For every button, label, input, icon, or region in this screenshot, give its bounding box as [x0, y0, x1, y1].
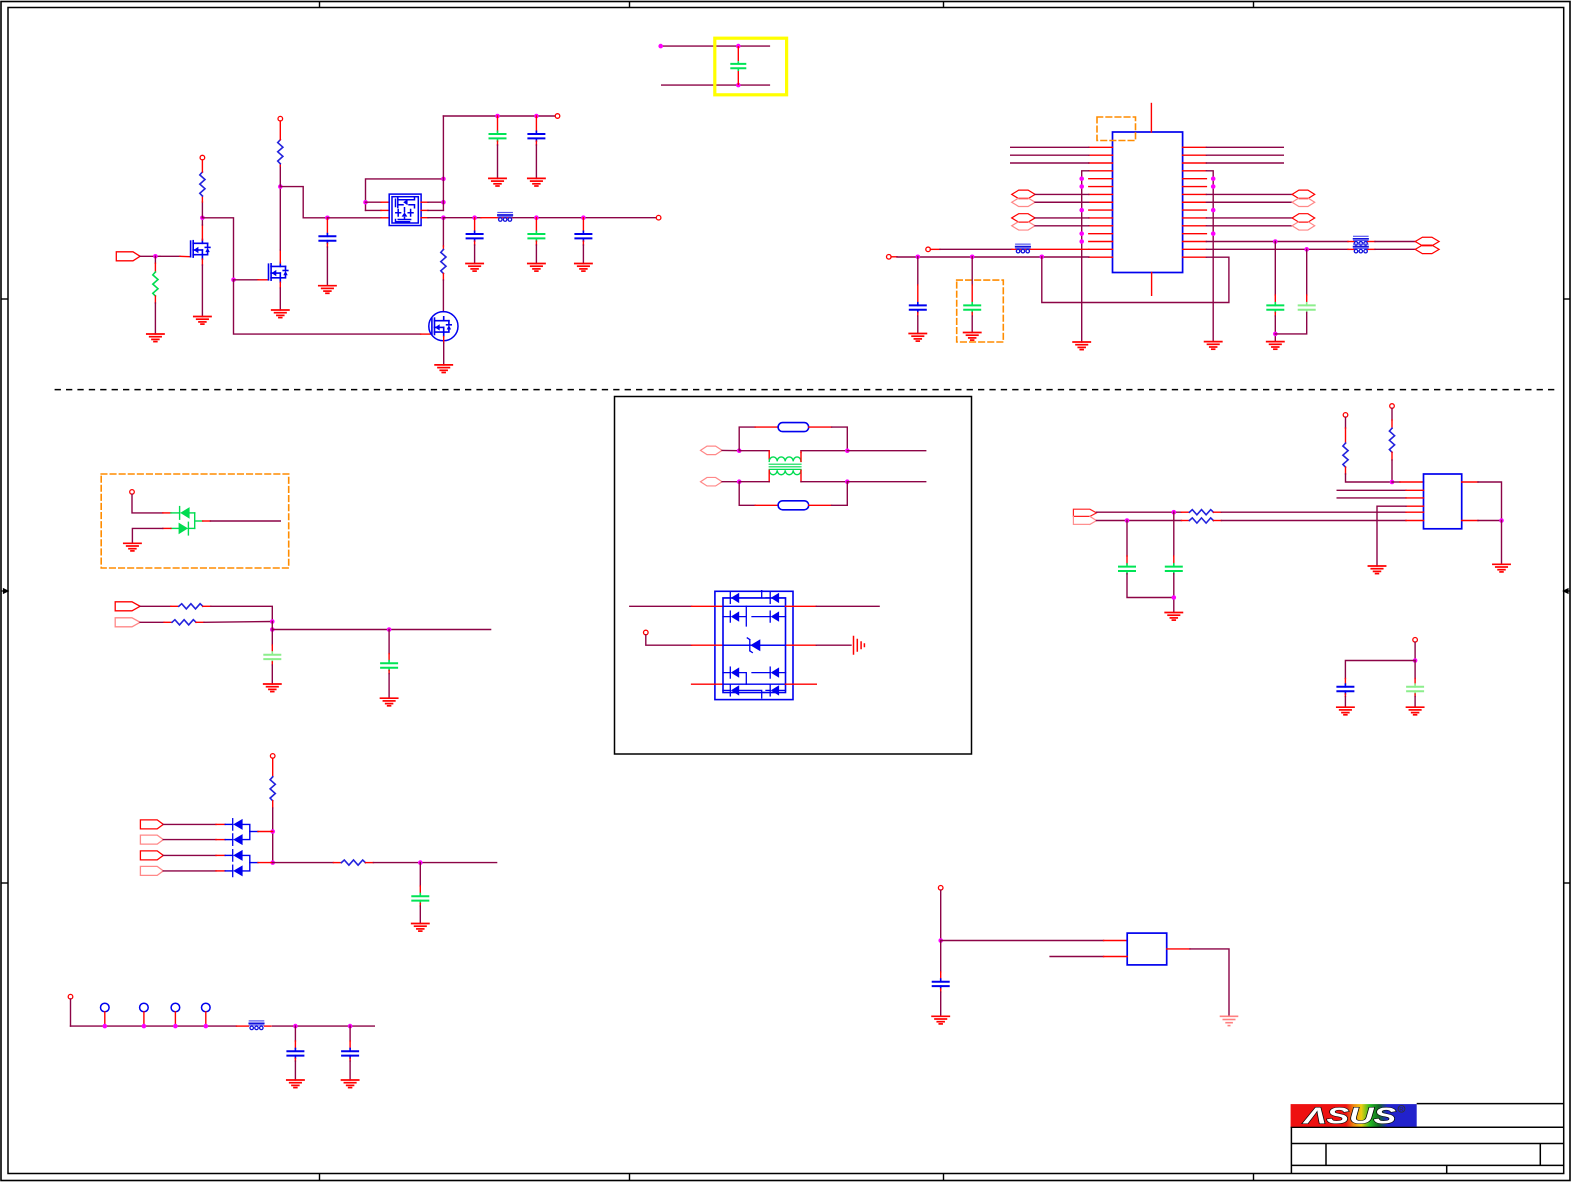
- resistor R7: [341, 860, 365, 865]
- orange DNP box: [1097, 117, 1136, 141]
- wire R6 down: [272, 801, 274, 808]
- node Q2 drain / R2: [278, 184, 283, 189]
- wire left leg: [1345, 661, 1415, 679]
- wire node to R1: [201, 202, 203, 218]
- transistor Q4 circled: [429, 312, 458, 341]
- node diode join 1: [270, 829, 275, 834]
- fuse F1: [778, 423, 809, 432]
- zone tick left b: [1, 882, 8, 884]
- U1 right pin stubs: [1183, 147, 1207, 257]
- wires TX right: [1206, 193, 1292, 195]
- node loop: [1040, 254, 1045, 259]
- wire C8 gnd: [917, 313, 919, 317]
- wire C16: [1173, 512, 1175, 556]
- top rail VIN: [443, 115, 555, 117]
- ground C13: [287, 1080, 304, 1088]
- node loop left: [363, 200, 368, 205]
- title block left vertical: [1290, 1127, 1292, 1173]
- wire loop under U1: [1042, 257, 1229, 303]
- orange DNP box 2: [957, 280, 1004, 342]
- zone tick top 2: [629, 1, 631, 8]
- connector in P: [701, 446, 723, 455]
- wire C6 gnd: [582, 241, 584, 245]
- wire loop left pin: [366, 201, 382, 203]
- node cap scl: [1172, 510, 1177, 515]
- wire pin down: [1414, 642, 1416, 660]
- resistor R2: [278, 140, 283, 164]
- nodes on left bus: [1079, 176, 1084, 181]
- wire pin to bead: [930, 248, 940, 250]
- wire VDD33 right top: [1206, 241, 1348, 243]
- wires in1-4 to diodes: [163, 824, 216, 871]
- wire U3 pin2: [1050, 956, 1104, 958]
- wire N to node: [722, 481, 739, 483]
- node C6: [581, 215, 586, 220]
- connector pair RX right: [1292, 214, 1315, 223]
- wire P to node: [722, 449, 739, 451]
- node C13: [293, 1024, 298, 1029]
- ground under C1: [319, 286, 336, 294]
- wire C11: [271, 630, 273, 646]
- node loop top: [441, 177, 446, 182]
- connector pair RX left: [1012, 214, 1035, 223]
- wire out N: [847, 481, 925, 483]
- pin VIN3: [938, 886, 943, 891]
- wire fuse bottom loop: [739, 482, 755, 506]
- fuse F2: [778, 501, 809, 510]
- wire P to transformer: [739, 450, 769, 452]
- ground C14: [342, 1080, 359, 1088]
- wire C12: [419, 863, 421, 886]
- test point TP2: [140, 1003, 149, 1012]
- wire bottom into yellow box: [661, 84, 770, 86]
- capacitor C9 green: [964, 303, 980, 313]
- title block line under logo: [1291, 1126, 1563, 1128]
- ground dual diode: [124, 543, 141, 551]
- op-amp U1 body: [1113, 132, 1183, 273]
- ground C10: [381, 698, 398, 706]
- rail out right: [272, 622, 490, 630]
- zone tick top 1: [319, 1, 321, 8]
- svg-text:ΛSUS: ΛSUS: [1301, 1103, 1396, 1129]
- wire C16 down: [1173, 574, 1175, 613]
- capacitor C8 blue: [910, 303, 926, 313]
- wire loop mid pin: [366, 209, 382, 211]
- wire to C2: [497, 116, 499, 131]
- wire node to R2: [279, 166, 281, 187]
- TVS diodes row3: [730, 667, 779, 678]
- resistor R6: [270, 777, 275, 801]
- wire R to ground: [154, 296, 156, 303]
- inductor bead L1: [498, 213, 512, 222]
- wire U1 bottom stub: [1151, 273, 1153, 296]
- resistor R11: [1189, 518, 1213, 523]
- wire R1 to pin: [201, 160, 203, 172]
- node switch: [441, 215, 446, 220]
- diode D4: [233, 819, 243, 830]
- wire to C4: [474, 218, 476, 232]
- zone tick left a: [1, 298, 8, 300]
- title block divider v2: [1539, 1144, 1541, 1166]
- wire node to gate bus: [280, 187, 327, 218]
- wire gate loop top: [366, 179, 444, 211]
- node cap C1: [325, 216, 330, 221]
- dual MOSFET package Q3: [389, 194, 421, 225]
- wire pin down: [940, 890, 942, 940]
- wire pin to R8: [1345, 417, 1347, 428]
- zone tick right b: [1564, 882, 1571, 884]
- connector in3: [140, 851, 163, 860]
- node merge: [270, 619, 275, 624]
- wire R10 to U2: [1213, 511, 1221, 513]
- TVS array D1 outer box: [715, 591, 793, 699]
- node C14: [348, 1024, 353, 1029]
- pin diode top: [130, 490, 135, 495]
- node cap top: [736, 44, 741, 49]
- wire C10 gnd: [388, 670, 390, 673]
- earth ground right: [854, 637, 865, 655]
- capacitor C16 green: [1166, 564, 1182, 574]
- title block row line 2: [1291, 1143, 1563, 1145]
- pin VA: [1343, 413, 1348, 418]
- zone mid arrow right: [1564, 589, 1571, 593]
- title block row line 3: [1291, 1164, 1563, 1166]
- wire rail into FET box: [327, 217, 381, 219]
- ground C12: [412, 924, 429, 932]
- transistor Q2: [269, 263, 288, 283]
- wire left ground bus: [1082, 171, 1089, 342]
- node out P: [845, 448, 850, 453]
- wire N to transformer: [739, 481, 769, 483]
- wire C4 gnd: [474, 241, 476, 245]
- IC U3 body: [1127, 933, 1167, 965]
- capacitor C3 blue: [528, 131, 544, 141]
- TVS diodes row4: [730, 685, 779, 696]
- ground under C2: [489, 178, 506, 186]
- resistor R1 pullup: [200, 172, 205, 196]
- wire feedback resistor: [442, 246, 444, 250]
- pin rail: [68, 994, 73, 999]
- wire U2 right pin2: [1462, 520, 1478, 522]
- capacitor C7 green: [730, 61, 746, 71]
- ground under Q2: [272, 310, 289, 318]
- wire VDD rail: [891, 256, 897, 258]
- wire C19: [940, 941, 942, 973]
- transformer T1 primary: [769, 457, 801, 461]
- node R junction: [1390, 480, 1395, 485]
- transformer T1 secondary: [769, 470, 801, 474]
- wire right ground bus: [1206, 171, 1213, 342]
- connector in2: [140, 835, 163, 844]
- ASUS logo: [1291, 1103, 1417, 1129]
- wire node right and down: [202, 218, 233, 280]
- capacitor C17 blue: [1337, 684, 1353, 694]
- pin P1: [200, 155, 205, 160]
- wire U2 pin4 to gnd: [1406, 505, 1424, 507]
- zone tick bottom 3: [943, 1174, 945, 1181]
- wire pin to R6: [272, 758, 274, 777]
- IC U2 body: [1424, 474, 1462, 529]
- node U2 right: [1499, 518, 1504, 523]
- wire R4 right: [203, 605, 211, 607]
- node gate Q2: [231, 278, 236, 283]
- wires U1 left pins 1-3: [1011, 147, 1089, 163]
- ground C11: [264, 684, 281, 692]
- wire pin down right: [132, 494, 163, 513]
- zone tick bottom 2: [629, 1174, 631, 1181]
- wire Q1 drain up: [201, 225, 203, 240]
- ground under C9: [964, 333, 981, 341]
- diode D5: [233, 834, 243, 845]
- node P: [737, 448, 742, 453]
- wire R7 right: [365, 862, 373, 864]
- TVS diodes row2: [730, 611, 779, 622]
- wire fuse top loop: [739, 427, 755, 451]
- wire link1 to node: [250, 831, 258, 833]
- TVS row3-4 links: [723, 673, 786, 698]
- ferrite bead right A: [1354, 236, 1368, 245]
- node cap bottom: [736, 83, 741, 88]
- title block top line: [1417, 1103, 1563, 1105]
- wire vertical main: [442, 116, 444, 210]
- wire to C6: [582, 218, 584, 232]
- wire to C5: [535, 218, 537, 232]
- diode D3 green down: [179, 522, 195, 535]
- ground right bus: [1205, 342, 1222, 350]
- wires RX to U1: [1035, 217, 1089, 219]
- ground C19: [932, 1016, 949, 1024]
- resistor R pulldown (green): [153, 272, 158, 296]
- wire down to bottom run: [234, 280, 421, 334]
- wire U2 right pin1: [1462, 481, 1478, 483]
- wire sda: [1097, 511, 1182, 513]
- connector EN input: [116, 252, 140, 261]
- wire transformer out bottom: [801, 481, 847, 483]
- node Q1 drain: [200, 216, 205, 221]
- ground C18: [1407, 707, 1424, 715]
- connector in4: [140, 866, 163, 875]
- resistor R4: [179, 604, 203, 609]
- resistor R8: [1343, 443, 1348, 467]
- node cap sda: [1125, 518, 1130, 523]
- test point TP4: [202, 1003, 211, 1012]
- wire transformer out top: [801, 450, 847, 452]
- wire C8: [917, 257, 919, 285]
- wire C9 gnd: [971, 313, 973, 317]
- pin P2: [278, 116, 283, 121]
- connector pair TX right: [1292, 190, 1315, 199]
- ground U2: [1368, 566, 1385, 574]
- node diode join 2: [270, 860, 275, 865]
- ground under C5: [528, 264, 545, 272]
- wire sig2 to R: [140, 621, 164, 623]
- wire cap A bottom: [1274, 313, 1276, 317]
- wire node to U2 pin1: [1392, 481, 1400, 483]
- node N: [737, 479, 742, 484]
- zone tick top 4: [1253, 1, 1255, 8]
- diode D6: [233, 850, 243, 861]
- wire C15 down: [1127, 574, 1174, 598]
- wire Q2 drain up to node: [279, 250, 281, 263]
- resistor R5: [172, 620, 196, 625]
- wire VDD33 right bottom: [1206, 248, 1348, 250]
- pin AVDD left: [926, 247, 931, 252]
- pin pullup: [270, 754, 275, 759]
- connector sig2: [115, 618, 140, 627]
- rail right: [273, 862, 334, 864]
- wire R9 down: [1391, 452, 1393, 460]
- capacitor right B pale green: [1299, 303, 1315, 313]
- node caps gnd: [1172, 595, 1177, 600]
- wire U3 out right: [1167, 948, 1190, 950]
- wire R8 down right: [1345, 467, 1347, 474]
- wire node to R green: [154, 256, 156, 263]
- wire C2 to gnd: [497, 141, 499, 145]
- wire C14 gnd: [349, 1058, 351, 1061]
- wire to cap C1: [326, 218, 328, 234]
- ferrite bead FB2: [249, 1021, 263, 1030]
- rail VDD left: [887, 254, 892, 259]
- TVS diodes row1: [730, 592, 779, 603]
- wire TVS line1: [630, 605, 692, 607]
- wire C17 gnd: [1344, 694, 1346, 697]
- capacitor C11 pale green: [264, 652, 280, 662]
- dashed separator line: [55, 389, 1556, 391]
- zone tick right a: [1564, 298, 1571, 300]
- wire C15: [1126, 521, 1128, 557]
- node caps join: [1273, 332, 1278, 337]
- TVS row1-2 links: [723, 591, 786, 646]
- zone mid arrow left: [1, 589, 8, 593]
- wire diode bottom to gnd: [171, 527, 179, 529]
- ferrite bead right B: [1354, 244, 1368, 253]
- wires U1 right pins 1-3: [1206, 147, 1283, 163]
- node C3: [534, 114, 539, 119]
- capacitor C1: [319, 234, 335, 244]
- wire C1 to ground: [326, 243, 328, 247]
- ground left bus: [1073, 342, 1090, 350]
- wire U1 top stub: [1150, 104, 1152, 133]
- wire link2 to node: [250, 862, 258, 864]
- ground under C6: [575, 264, 592, 272]
- wire C10: [388, 630, 390, 654]
- ground U2 right: [1493, 564, 1510, 572]
- svg-text:R: R: [1399, 1107, 1403, 1113]
- wires TX to U1: [1035, 193, 1089, 195]
- U1 left pin stubs: [1089, 147, 1113, 257]
- wire C14: [349, 1026, 351, 1041]
- wire C3 to gnd: [535, 141, 537, 145]
- pin VB: [1390, 404, 1395, 409]
- wire cap B down: [1306, 249, 1308, 295]
- node wire top left end: [658, 44, 663, 49]
- rail: [71, 1025, 237, 1027]
- ferrite bead FB left: [1016, 244, 1030, 253]
- ground under R: [147, 334, 164, 342]
- ground U3 right pale: [1221, 1016, 1238, 1025]
- wire Q2 source to ground: [279, 282, 281, 288]
- node EN junction: [153, 254, 158, 259]
- TVS array D1 inner box: [723, 598, 786, 693]
- ground under caps: [1267, 342, 1284, 350]
- wire C19 gnd: [940, 989, 942, 992]
- wire top into yellow box: [661, 45, 770, 47]
- ground under C8: [909, 334, 926, 342]
- wire C12 gnd: [419, 903, 421, 906]
- wire cap A down: [1274, 242, 1276, 296]
- node VIN3: [938, 938, 943, 943]
- diode D2 green up: [180, 507, 195, 520]
- output rail: [443, 217, 481, 219]
- wire C18 gnd: [1414, 694, 1416, 697]
- diode pair links: [243, 824, 250, 839]
- wire fuse top right: [809, 426, 832, 428]
- capacitor C5 green: [528, 231, 544, 241]
- capacitor C12 green: [412, 894, 428, 904]
- capacitor C4 blue: [467, 231, 483, 241]
- connector in1: [140, 820, 163, 829]
- wire C11 gnd: [271, 662, 273, 665]
- wire C9: [971, 257, 973, 285]
- zone tick bottom 4: [1253, 1174, 1255, 1181]
- TVS zener: [747, 638, 760, 653]
- connector sig1: [115, 602, 140, 611]
- ground under Q4: [435, 365, 452, 373]
- wire TVS line2: [646, 635, 692, 645]
- diode D7: [233, 865, 243, 876]
- node VCC: [1413, 658, 1418, 663]
- wire R5 right: [196, 621, 204, 623]
- connector I2C pair: [1073, 509, 1096, 516]
- zone tick bottom 1: [319, 1174, 321, 1181]
- connector in N: [701, 477, 723, 486]
- wire R2 to pin: [279, 121, 281, 140]
- wire U2 pin2 short: [1337, 489, 1406, 491]
- node C4: [472, 215, 477, 220]
- wire Q1 source to ground: [201, 259, 203, 265]
- wire to U3 pin1: [941, 940, 1104, 942]
- nodes on right bus: [1211, 176, 1216, 181]
- wire pin to R9: [1391, 408, 1393, 420]
- wire scl: [1097, 520, 1182, 522]
- node C9: [970, 254, 975, 259]
- wire FET box right pins: [421, 201, 428, 203]
- wire diode common: [194, 513, 196, 529]
- wire to C3: [535, 116, 537, 131]
- title block divider v3: [1446, 1165, 1448, 1173]
- wire down to gnd: [1501, 521, 1503, 565]
- node rail: [270, 627, 275, 632]
- wire C5 gnd: [535, 241, 537, 245]
- capacitor C15 green: [1119, 564, 1135, 574]
- ground under C3: [528, 178, 545, 186]
- ground C17: [1337, 707, 1354, 715]
- capacitor C18 pale green: [1407, 684, 1423, 694]
- wire cap leads: [737, 46, 739, 61]
- capacitor C19 blue: [933, 979, 949, 989]
- test point TP3: [171, 1003, 180, 1012]
- zone tick top 3: [943, 1, 945, 8]
- node right cap B: [1304, 247, 1309, 252]
- wire right leg: [1414, 661, 1416, 679]
- wire C13 gnd: [294, 1058, 296, 1061]
- transformer T1 core: [769, 464, 801, 469]
- pin TVS mid: [644, 630, 649, 635]
- wire R11 to U2: [1213, 520, 1221, 522]
- wire TVS line3: [692, 683, 723, 685]
- wire Q4 source to ground: [443, 337, 445, 344]
- yellow highlight box: [715, 38, 787, 95]
